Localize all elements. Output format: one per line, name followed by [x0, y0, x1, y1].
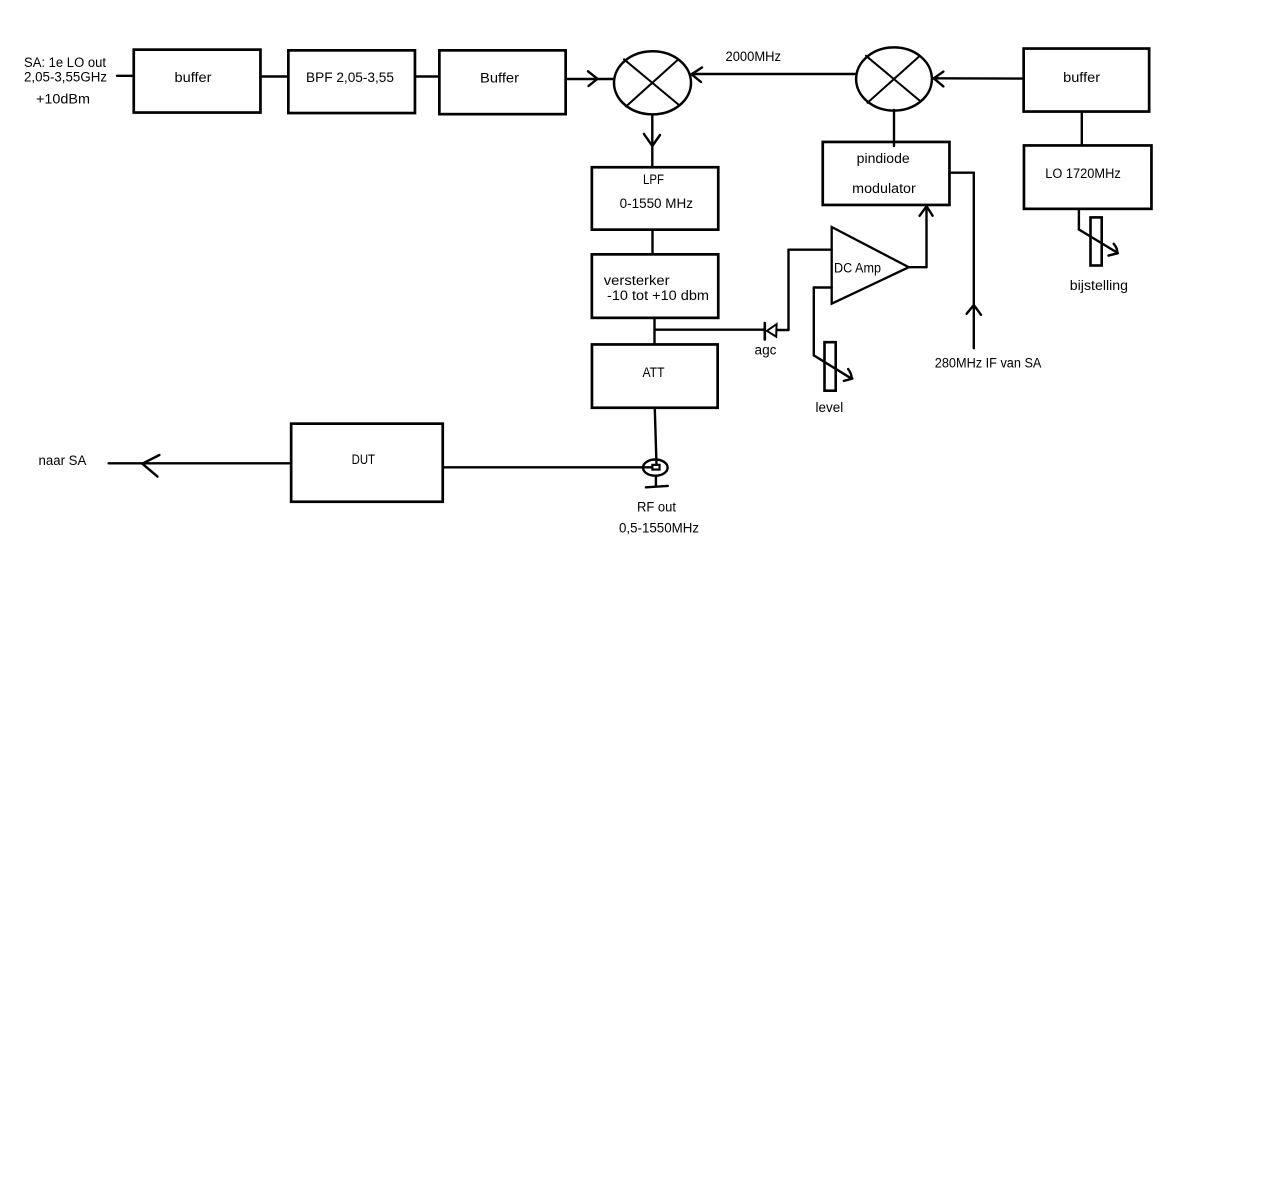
svg-text:280MHz IF van SA: 280MHz IF van SA — [935, 356, 1042, 371]
wire mixer M2 to pindiode modulator — [893, 110, 895, 146]
mixer M1 — [614, 51, 691, 114]
svg-text:buffer: buffer — [1063, 70, 1101, 85]
wire level pot to DC Amp inverting input — [814, 288, 853, 381]
svg-text:buffer: buffer — [175, 70, 213, 85]
device DUT — [291, 424, 443, 502]
svg-text:pindiode: pindiode — [857, 151, 910, 166]
wire pindiode modulator to 280MHz IF input with up arrow — [951, 173, 981, 349]
amplifier versterker — [592, 254, 718, 318]
wire buffer1 to BPF — [261, 75, 288, 77]
svg-text:modulator: modulator — [852, 181, 916, 196]
node RF out label — [619, 500, 699, 536]
wire buffer3 to mixer M2 with arrow — [934, 72, 1022, 87]
svg-text:versterker: versterker — [604, 273, 670, 288]
svg-text:LO 1720MHz: LO 1720MHz — [1045, 166, 1121, 181]
svg-text:naar SA: naar SA — [39, 453, 87, 468]
svg-text:DUT: DUT — [352, 452, 375, 467]
wire LPF to versterker — [651, 231, 653, 253]
wire LO to bijstelling trimmer — [1079, 210, 1118, 256]
wire versterker to ATT — [653, 319, 655, 343]
svg-text:SA: 1e LO out: SA: 1e LO out — [24, 55, 106, 70]
svg-text:ATT: ATT — [643, 365, 665, 380]
filter LPF 0-1550 MHz — [592, 167, 718, 229]
buffer U2 — [439, 50, 565, 114]
wire mixer M1 to LPF with down arrow — [644, 116, 660, 166]
svg-text:2000MHz: 2000MHz — [726, 49, 782, 64]
svg-text:agc: agc — [755, 343, 777, 358]
svg-text:0,5-1550MHz: 0,5-1550MHz — [619, 521, 699, 536]
node SA: 1e LO out label — [24, 55, 107, 107]
ground — [646, 477, 668, 488]
wire BPF to Buffer2 — [416, 75, 438, 77]
buffer U1 — [134, 50, 261, 113]
mixer M2 — [856, 47, 932, 110]
svg-text:0-1550 MHz: 0-1550 MHz — [620, 196, 694, 211]
svg-text:DC Amp: DC Amp — [834, 261, 881, 276]
connector RF out — [643, 460, 668, 476]
svg-text:BPF 2,05-3,55: BPF 2,05-3,55 — [306, 70, 394, 85]
svg-text:LPF: LPF — [643, 172, 664, 187]
svg-text:+10dBm: +10dBm — [36, 92, 90, 107]
wire ATT to RF out connector — [655, 409, 657, 465]
svg-text:level: level — [816, 400, 844, 415]
wire RF out connector to DUT — [444, 466, 651, 468]
potentiometer level — [816, 342, 844, 415]
filter BPF 2,05-3,55 — [288, 50, 415, 113]
oscillator LO 1720MHz — [1024, 145, 1151, 208]
trimmer bijstelling — [1070, 217, 1128, 293]
modulator pindiode — [823, 142, 950, 205]
attenuator ATT — [592, 344, 718, 407]
wire DC Amp output to pindiode modulator with up arrow — [909, 206, 933, 268]
wire SA input to buffer1 — [117, 75, 133, 77]
op-amp DC Amp — [832, 227, 909, 304]
svg-text:RF out: RF out — [637, 500, 676, 515]
wire buffer3 to LO — [1081, 113, 1083, 144]
svg-text:Buffer: Buffer — [480, 70, 520, 85]
wire mixer M2 to mixer M1, 2000MHz net, with arrow — [692, 68, 856, 83]
wire DUT to naar SA with arrow — [109, 455, 290, 477]
wire versterker output agc branch — [655, 250, 832, 330]
svg-text:2,05-3,55GHz: 2,05-3,55GHz — [24, 70, 107, 85]
wire Buffer2 to mixer M1 with arrow — [567, 71, 613, 86]
buffer U3 — [1024, 49, 1150, 112]
svg-text:bijstelling: bijstelling — [1070, 278, 1128, 293]
diode agc — [755, 323, 777, 358]
svg-text:-10 tot +10 dbm: -10 tot +10 dbm — [607, 288, 709, 303]
